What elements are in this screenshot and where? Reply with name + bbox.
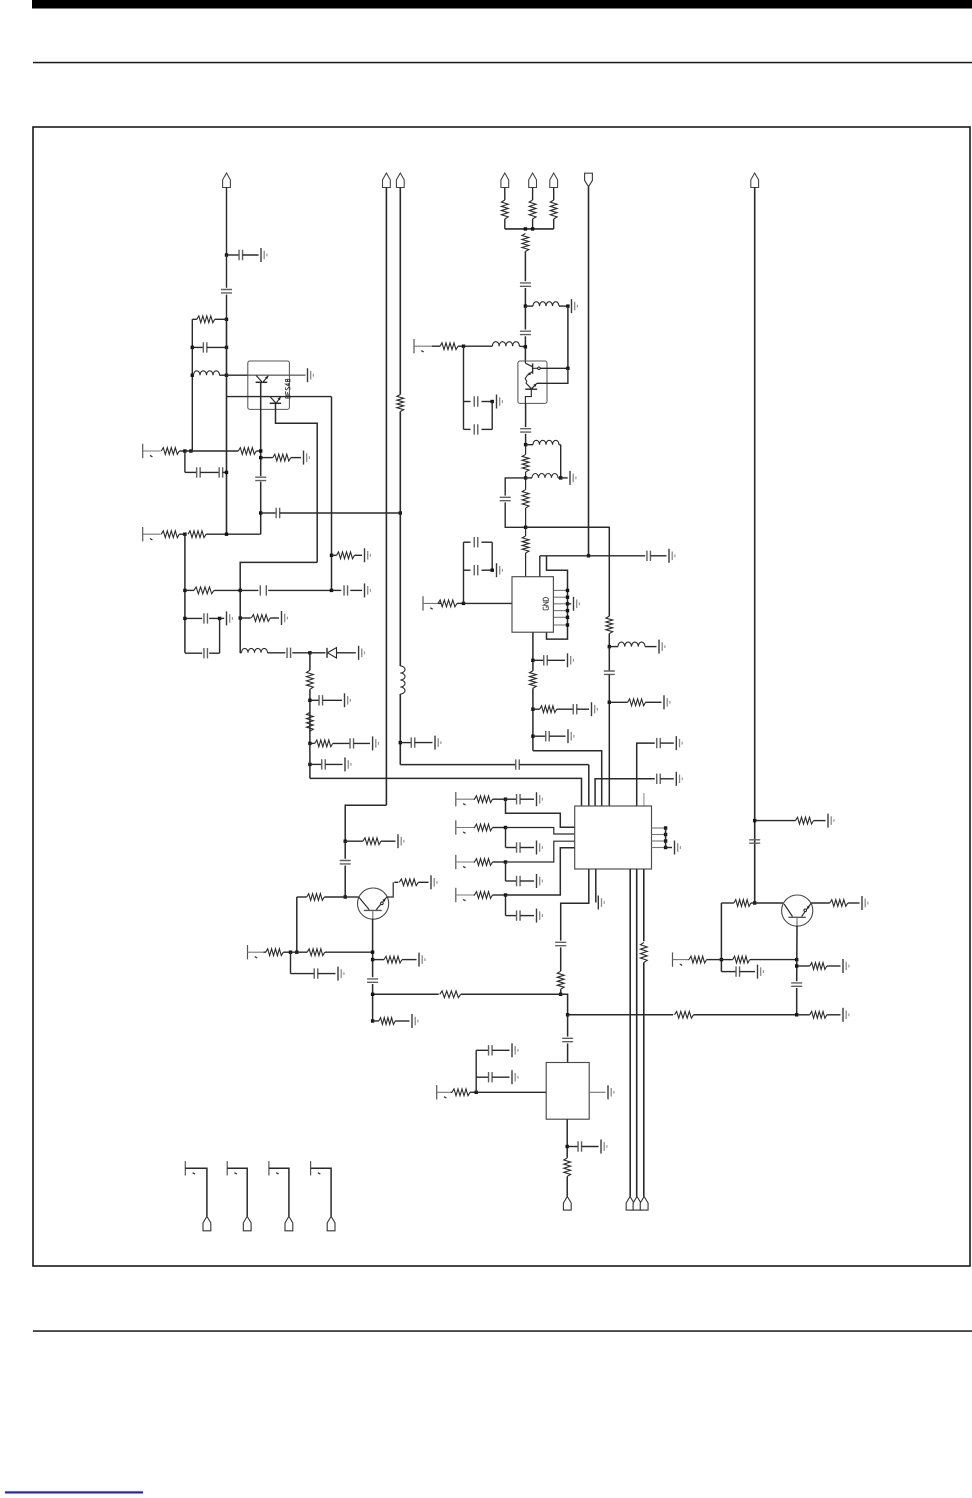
connector tag T3 — [633, 1197, 641, 1211]
wire row4 to pin — [506, 848, 575, 895]
resistor R9 — [240, 617, 251, 619]
node junction — [183, 589, 186, 592]
node junction — [308, 699, 311, 702]
supply tap B5 — [455, 792, 457, 806]
node junction — [524, 345, 527, 348]
wire row 743 right — [637, 743, 655, 806]
supply tap B4 — [422, 596, 424, 610]
label GND — [543, 598, 548, 610]
capacitor C41 — [367, 979, 378, 982]
node junction — [225, 471, 228, 474]
transistor Q3 — [358, 888, 389, 919]
transistor Q4 — [782, 895, 813, 926]
node junction — [504, 826, 507, 829]
wire — [848, 902, 860, 904]
ground — [260, 248, 262, 262]
wire drop — [184, 451, 186, 472]
node junction — [259, 511, 262, 514]
supply tap B6 — [455, 820, 457, 834]
resistor R41 — [373, 1020, 379, 1022]
transistor box Q2 outline — [518, 361, 547, 403]
ground — [307, 368, 309, 382]
resistor R24 — [530, 671, 537, 689]
wire Q2 emitter down — [525, 403, 527, 427]
capacitor C9 — [332, 589, 342, 591]
wire U3 right ground — [589, 1091, 605, 1093]
capacitor C36 — [506, 847, 517, 849]
resistor R7 — [188, 531, 206, 538]
ground — [827, 814, 829, 828]
node junction — [371, 993, 374, 996]
ground — [364, 583, 366, 597]
capacitor C29 — [340, 861, 351, 864]
wire stub — [505, 828, 507, 848]
node junction — [531, 708, 534, 711]
wire bundle line 2 — [636, 869, 638, 1197]
resistor R40 — [373, 959, 384, 961]
wire cross link — [240, 562, 317, 653]
header rule — [33, 62, 972, 64]
node junction — [795, 1013, 798, 1016]
wire rail P3 upper — [399, 188, 401, 395]
connector tag T1 — [563, 1197, 571, 1211]
capacitor C15 — [310, 763, 322, 765]
op-amp U1 box — [512, 577, 553, 633]
wire to IC2 — [608, 702, 610, 806]
resistor R31 — [475, 892, 493, 899]
resistor R35 — [675, 1011, 694, 1018]
wire feedback stub — [720, 903, 722, 972]
ground — [600, 1140, 602, 1154]
capacitor C17 — [520, 331, 531, 334]
node junction — [191, 346, 194, 349]
resistor R26 — [345, 840, 363, 842]
inductor L7 — [609, 646, 618, 648]
wire stub — [505, 895, 507, 916]
wire — [524, 336, 526, 361]
resistor R28 — [475, 796, 493, 803]
transistor Q2b — [526, 383, 532, 389]
supply tap B12 — [184, 1161, 186, 1175]
connector tag T4 — [640, 1197, 648, 1211]
supply tap B9 — [247, 945, 249, 959]
capacitor C7 — [261, 512, 276, 514]
wire — [560, 989, 562, 994]
wire x310 chain — [309, 653, 311, 671]
capacitor C22 — [604, 671, 615, 674]
connector tag T8 — [327, 1216, 335, 1230]
ground — [675, 736, 677, 750]
wire — [524, 288, 526, 306]
wire — [525, 434, 527, 445]
ground — [561, 477, 568, 479]
resistor R15 — [550, 200, 557, 219]
ground — [430, 875, 432, 889]
wire — [525, 527, 527, 536]
node junction — [183, 449, 186, 452]
capacitor C1 — [227, 254, 240, 256]
IC U2 box — [575, 806, 652, 869]
wire drop — [227, 1168, 247, 1216]
inductor L3 — [525, 305, 533, 307]
resistor R39 — [307, 949, 325, 956]
inductor L8 — [400, 666, 405, 694]
capacitor C6 — [255, 477, 266, 480]
wire tie bar — [665, 828, 667, 848]
ground — [344, 757, 346, 771]
node junction — [225, 318, 228, 321]
capacitor C43 — [791, 983, 802, 986]
resistor R3 — [161, 448, 179, 455]
wire — [532, 688, 534, 750]
transistor Q1a — [256, 375, 262, 381]
wire — [532, 219, 534, 229]
node junction — [504, 798, 507, 801]
node junction — [795, 958, 798, 961]
resistor R30 — [475, 859, 493, 866]
resistor R45 — [721, 959, 732, 961]
wire U1 bottom — [532, 632, 534, 671]
wire jog — [561, 994, 568, 1015]
wire to pin — [506, 841, 575, 862]
node junction — [504, 860, 507, 863]
resistor R43 — [830, 900, 848, 907]
wire rail P2 — [385, 188, 387, 806]
ground — [358, 646, 360, 660]
capacitor C5 — [219, 467, 223, 477]
ground — [337, 967, 339, 981]
wire — [291, 951, 308, 953]
wire — [525, 445, 527, 455]
capacitor C14 — [350, 738, 354, 748]
wire Q1b emitter — [276, 403, 318, 562]
wire stub — [290, 952, 292, 973]
node junction — [491, 569, 494, 572]
wire collector rail down — [331, 397, 333, 591]
node junction — [308, 742, 311, 745]
node junction — [371, 951, 374, 954]
resistor R32 — [557, 971, 564, 989]
wire — [532, 188, 534, 201]
node junction — [462, 345, 465, 348]
connector pin P4 — [501, 173, 509, 188]
ground — [220, 617, 225, 619]
connector tag T5 — [203, 1216, 211, 1230]
footer link line — [5, 1491, 143, 1493]
wire — [560, 947, 562, 971]
inductor L4 — [492, 342, 519, 347]
transistor Q2a — [524, 361, 526, 363]
capacitor C46 — [562, 1038, 573, 1041]
resistor R37 — [394, 881, 398, 883]
ground — [658, 640, 660, 654]
ground — [842, 1008, 844, 1022]
capacitor C35 — [506, 798, 517, 800]
wire drop — [269, 1168, 289, 1216]
node junction — [399, 741, 402, 744]
node junction — [524, 526, 527, 529]
node junction — [566, 304, 569, 307]
ground — [418, 953, 420, 967]
supply tap B7 — [455, 855, 457, 869]
resistor R22 to IC1 — [522, 536, 529, 553]
node junction — [566, 1013, 569, 1016]
supply tap B3 — [413, 339, 415, 353]
wire — [432, 345, 440, 347]
capacitor C8 — [240, 589, 258, 591]
resistor R20 — [606, 616, 613, 634]
node junction — [183, 533, 186, 536]
capacitor C34 — [657, 774, 661, 784]
node junction — [491, 400, 494, 403]
wire — [553, 219, 555, 229]
node junction — [239, 616, 242, 619]
resistor R34 — [440, 991, 461, 998]
resistor R42 — [721, 902, 734, 904]
ground — [757, 965, 759, 979]
node junction — [753, 819, 756, 822]
inductor L2 — [240, 652, 241, 654]
ground — [668, 549, 670, 563]
capacitor C38 — [506, 915, 517, 917]
capacitor C47 — [567, 1146, 578, 1148]
node junction — [344, 895, 347, 898]
wire emitter — [372, 919, 374, 978]
wire flag rail — [588, 187, 590, 556]
node junction — [239, 589, 242, 592]
node junction — [566, 1145, 569, 1148]
ground — [364, 548, 366, 562]
resistor R6 — [161, 531, 179, 538]
node junction — [183, 617, 186, 620]
resistor R38 — [266, 949, 284, 956]
node junction — [259, 456, 262, 459]
capacitor C20 — [520, 429, 531, 432]
wire pin644 stub — [643, 793, 645, 806]
node junction — [191, 374, 194, 377]
connector tag T7 — [285, 1216, 293, 1230]
node junction — [531, 735, 534, 738]
ground — [568, 603, 572, 605]
wire to IC2 pin1 — [309, 743, 311, 778]
resistor R14 — [529, 200, 536, 219]
ground — [571, 299, 573, 313]
capacitor C33 — [657, 738, 661, 748]
resistor R16 — [522, 234, 529, 252]
capacitor C13 — [310, 699, 319, 701]
node junction — [795, 964, 798, 967]
wire base feed — [296, 897, 298, 952]
resistor R48 — [452, 1089, 470, 1096]
resistor R8 — [185, 589, 194, 591]
wire — [309, 689, 311, 743]
supply tap B8 — [455, 888, 457, 902]
wire — [608, 674, 610, 702]
node junction — [559, 993, 562, 996]
wire left rail — [191, 319, 193, 451]
transistor box Q1 outline — [248, 361, 290, 409]
connector pin P3 — [396, 173, 404, 188]
ground — [536, 909, 538, 923]
wire bracket — [547, 556, 568, 639]
resistor R33 — [640, 943, 647, 963]
wire to right chain — [526, 527, 610, 616]
capacitor C39 — [555, 942, 566, 945]
node junction — [566, 367, 569, 370]
wire to box Q2 — [567, 306, 569, 368]
connector pin P6 — [550, 173, 558, 188]
wire bus — [505, 228, 554, 230]
node junction — [608, 701, 611, 704]
node junction — [504, 893, 507, 896]
wire rail P3 turn — [400, 764, 515, 766]
wire — [566, 1177, 568, 1197]
wire U3 bottom — [566, 1119, 568, 1158]
resistor R2 — [332, 554, 337, 556]
resistor R29 — [475, 824, 493, 831]
capacitor C26 — [533, 659, 544, 661]
node junction — [308, 651, 311, 654]
node junction — [371, 958, 374, 961]
IC2 right pin stubs — [652, 827, 666, 829]
capacitor C25 — [464, 569, 471, 571]
wire emitter rail lower — [260, 482, 262, 535]
wire rail P3 — [399, 412, 401, 667]
wire — [796, 988, 798, 1015]
node junction — [720, 958, 723, 961]
capacitor C28 — [533, 735, 546, 737]
resistor R10 — [307, 670, 314, 689]
resistor R1 — [192, 318, 197, 320]
wire IC2 pin 596 ground — [595, 869, 597, 903]
wire base — [755, 902, 783, 904]
wire — [239, 590, 241, 618]
wire base — [345, 896, 358, 898]
wire collector — [811, 902, 830, 904]
capacitor C10 — [185, 617, 202, 619]
ground — [511, 1043, 513, 1057]
ground — [344, 693, 346, 707]
wire bundle line 3b — [643, 963, 645, 1197]
node junction — [524, 443, 527, 446]
resistor R47 — [797, 1014, 810, 1016]
capacitor C21 branch — [505, 478, 525, 496]
capacitor C18 — [464, 401, 471, 403]
wire through box to ground — [248, 374, 306, 376]
wire — [519, 764, 589, 766]
node junction — [531, 659, 534, 662]
wire row 556 — [540, 555, 645, 557]
capacitor C3 — [192, 346, 203, 348]
wire Q1a emitter down — [260, 382, 262, 476]
node junction — [308, 763, 311, 766]
resistor R19 — [522, 490, 529, 509]
capacitor C40 — [291, 973, 315, 975]
inductor L1 — [192, 374, 193, 376]
resistor R11 — [307, 712, 314, 731]
node junction — [524, 476, 527, 479]
capacitor C2 — [221, 290, 232, 293]
wire Q2 collector 2 — [537, 368, 568, 383]
wire — [504, 188, 506, 201]
ground — [496, 395, 498, 409]
wire — [372, 984, 374, 1021]
connector tag T6 — [243, 1216, 251, 1230]
supply tap B1 — [142, 444, 144, 458]
node junction — [225, 346, 228, 349]
supply tap B13 — [226, 1161, 228, 1175]
ground — [496, 563, 498, 577]
transistor Q1b — [270, 397, 275, 403]
wire row 994 — [373, 993, 439, 995]
ground — [675, 772, 677, 786]
wire stub — [505, 862, 507, 881]
wire drop — [311, 1168, 332, 1216]
wire main IF line — [524, 252, 526, 282]
resistor R46 — [797, 965, 810, 967]
wire — [524, 306, 526, 329]
node junction — [753, 901, 756, 904]
wire rail P7 — [754, 188, 756, 904]
node junction — [475, 1091, 478, 1094]
node junction — [295, 951, 298, 954]
node junction — [330, 554, 333, 557]
wire — [560, 445, 562, 478]
wire — [461, 993, 561, 995]
page header black bar — [32, 0, 972, 9]
wire Q2 collector 1 — [540, 367, 568, 369]
capacitor C11 — [185, 652, 202, 654]
cap cluster stub — [463, 542, 465, 603]
node junction — [218, 617, 221, 620]
capacitor C45 — [476, 1076, 488, 1078]
node junction — [330, 589, 333, 592]
resistor R27 — [755, 820, 796, 822]
ground — [372, 736, 374, 750]
node junction — [531, 227, 534, 230]
wire left rail 2 — [184, 534, 186, 653]
wire — [608, 634, 610, 647]
connector flag F1 — [585, 173, 593, 187]
capacitor C42 — [721, 971, 736, 973]
resistor R49 — [564, 1158, 571, 1177]
label BFS48 — [285, 380, 290, 399]
capacitor C12 — [287, 648, 291, 658]
capacitor C30 — [400, 742, 411, 744]
ground — [536, 792, 538, 806]
cap cluster stub — [475, 1050, 477, 1092]
wire stub — [491, 542, 493, 570]
ground — [567, 653, 569, 667]
connector pin P1 — [223, 173, 231, 188]
resistor R23 — [438, 600, 457, 607]
wire — [567, 1043, 569, 1062]
capacitor C4 — [185, 471, 197, 473]
resistor R50 — [397, 395, 404, 412]
wire — [344, 841, 346, 859]
ground — [663, 695, 665, 709]
ground — [536, 841, 538, 855]
node junction — [524, 304, 527, 307]
ground — [434, 736, 436, 750]
wire — [399, 694, 401, 765]
connector tag T2 — [626, 1197, 634, 1211]
ground — [511, 1070, 513, 1084]
wire row 1015 — [568, 1014, 674, 1016]
capacitor C23 — [647, 551, 651, 561]
footer rule — [33, 1330, 972, 1332]
resistor R17 — [440, 343, 458, 350]
